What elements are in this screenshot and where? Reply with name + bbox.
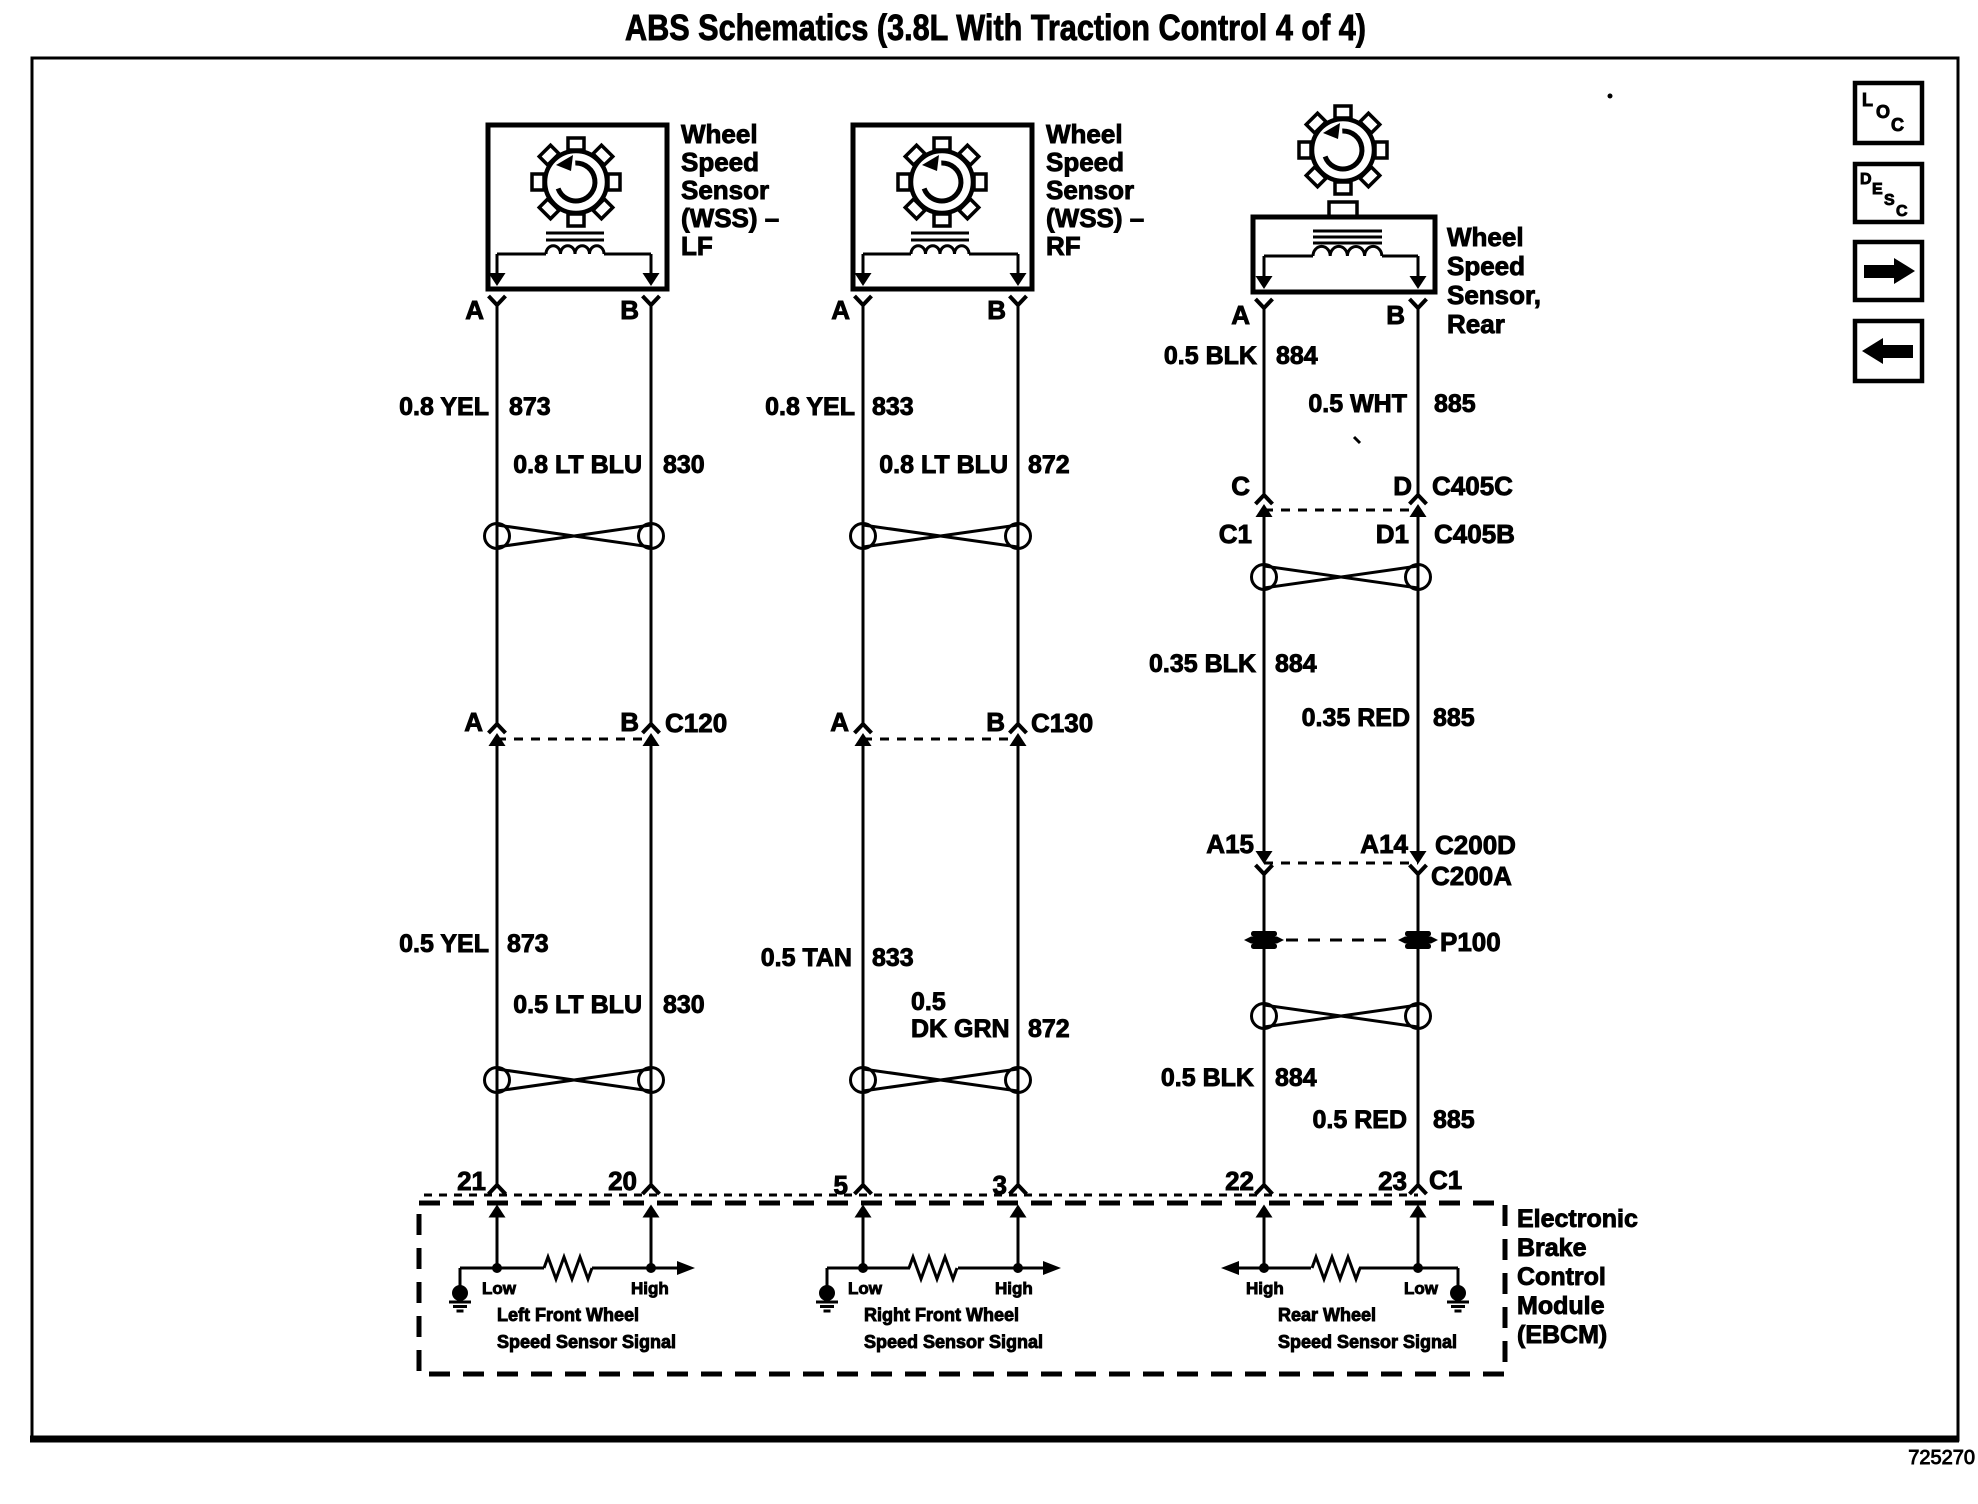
svg-text:S: S bbox=[1884, 192, 1895, 209]
EBCM LF internal wire Low-High bbox=[460, 1261, 695, 1275]
EBCM pin arrow 23 bbox=[1410, 1205, 1427, 1269]
svg-text:Right Front Wheel: Right Front Wheel bbox=[864, 1305, 1019, 1325]
grommet P100 right bbox=[1398, 931, 1438, 949]
rear sensor stub bbox=[1329, 202, 1357, 217]
wire 884 (0.35 BLK) segment rear-A mid bbox=[1263, 517, 1266, 851]
svg-text:884: 884 bbox=[1275, 1064, 1317, 1092]
wheel speed sensor (WSS) RF coil bbox=[911, 233, 969, 254]
svg-text:C1: C1 bbox=[1219, 519, 1252, 549]
twisted pair symbol rear upper bbox=[1252, 565, 1431, 590]
svg-text:Speed: Speed bbox=[1046, 147, 1124, 177]
svg-text:885: 885 bbox=[1434, 390, 1476, 418]
EBCM pin arrow 3 bbox=[1010, 1205, 1027, 1269]
svg-text:O: O bbox=[1876, 102, 1890, 122]
resistor LF wheel speed sensor signal bbox=[544, 1257, 592, 1279]
wire 885 (0.5 WHT) segment rear-B top bbox=[1417, 309, 1420, 494]
WSS LF pin forks bbox=[489, 296, 660, 305]
connector C405C / C405B bbox=[1256, 495, 1427, 517]
label 0.5 BLK 884 top bbox=[1164, 342, 1318, 370]
label 0.5 RED 885 bbox=[1313, 1106, 1475, 1134]
svg-text:A: A bbox=[464, 707, 483, 737]
svg-text:830: 830 bbox=[663, 991, 705, 1019]
svg-text:Wheel: Wheel bbox=[1447, 222, 1524, 252]
svg-text:0.35 BLK: 0.35 BLK bbox=[1149, 650, 1256, 678]
connector C120 bbox=[489, 724, 660, 746]
svg-text:0.5 BLK: 0.5 BLK bbox=[1161, 1064, 1254, 1092]
label 0.8 YEL 873 bbox=[399, 393, 551, 421]
wheel speed sensor (WSS) RF internal wiring bbox=[855, 254, 1027, 286]
label 0.35 BLK 884 bbox=[1149, 650, 1317, 678]
svg-text:Left Front Wheel: Left Front Wheel bbox=[497, 1305, 639, 1325]
label 0.5 LT BLU 830 bbox=[513, 991, 704, 1019]
svg-text:833: 833 bbox=[872, 944, 914, 972]
wire 885 (0.5 RED) segment rear-B bottom bbox=[1417, 949, 1420, 1184]
wheel speed sensor (WSS) LF internal wiring bbox=[489, 254, 660, 286]
wire 833 (0.8 YEL) upper segment RF-A bbox=[862, 306, 865, 723]
wheel speed sensor Rear tone ring gear bbox=[1299, 106, 1387, 194]
svg-text:L: L bbox=[1862, 90, 1873, 110]
DESC button bbox=[1855, 164, 1922, 222]
RF wire end forks at EBCM bbox=[855, 1185, 1027, 1194]
svg-text:A: A bbox=[1231, 300, 1250, 330]
wire 885 (0.35 RED) segment rear-B mid bbox=[1417, 517, 1420, 851]
svg-text:C120: C120 bbox=[665, 708, 727, 738]
svg-text:RF: RF bbox=[1046, 231, 1081, 261]
wheel speed sensor Rear coil bbox=[1313, 231, 1382, 256]
svg-text:0.35 RED: 0.35 RED bbox=[1302, 704, 1410, 732]
svg-text:872: 872 bbox=[1028, 1015, 1070, 1043]
svg-text:Module: Module bbox=[1517, 1292, 1605, 1320]
label 0.8 LT BLU 872 bbox=[879, 451, 1069, 479]
svg-text:C405C: C405C bbox=[1432, 471, 1513, 501]
wire 872 (0.8 LT BLU) upper segment RF-B bbox=[1017, 306, 1020, 723]
label Left Front Wheel Speed Sensor Signal bbox=[497, 1305, 676, 1352]
svg-text:B: B bbox=[620, 295, 639, 325]
wheel speed sensor (WSS) RF box bbox=[853, 125, 1032, 289]
svg-text:C: C bbox=[1231, 471, 1250, 501]
wheel speed sensor RF tone ring gear bbox=[898, 138, 986, 226]
svg-text:0.5 YEL: 0.5 YEL bbox=[399, 930, 489, 958]
svg-text:0.8 LT BLU: 0.8 LT BLU bbox=[513, 451, 642, 479]
svg-text:0.5 BLK: 0.5 BLK bbox=[1164, 342, 1257, 370]
svg-text:A: A bbox=[830, 707, 849, 737]
svg-text:LF: LF bbox=[681, 231, 713, 261]
wire 872 (0.5 DK GRN) lower segment RF-B bbox=[1017, 746, 1020, 1184]
svg-text:B: B bbox=[987, 295, 1006, 325]
label 0.8 LT BLU 830 bbox=[513, 451, 704, 479]
svg-text:885: 885 bbox=[1433, 1106, 1475, 1134]
label Electronic Brake Control Module (EBCM) bbox=[1517, 1205, 1638, 1349]
svg-text:Control: Control bbox=[1517, 1263, 1606, 1291]
wheel speed sensor LF tone ring gear bbox=[532, 138, 620, 226]
LF wire end forks at EBCM bbox=[489, 1185, 660, 1194]
svg-text:833: 833 bbox=[872, 393, 914, 421]
ground at EBCM pin 5 side bbox=[816, 1268, 838, 1311]
wire 833 (0.5 TAN) lower segment RF-A bbox=[862, 746, 865, 1184]
WSS RF pin forks bbox=[855, 296, 1027, 305]
svg-text:C1: C1 bbox=[1429, 1165, 1462, 1195]
P100 dashed link bbox=[1286, 939, 1396, 942]
resistor rear wheel speed sensor signal bbox=[1312, 1257, 1360, 1279]
svg-text:0.5 LT BLU: 0.5 LT BLU bbox=[513, 991, 642, 1019]
svg-text:873: 873 bbox=[507, 930, 549, 958]
svg-text:ABS Schematics (3.8L With Trac: ABS Schematics (3.8L With Traction Contr… bbox=[625, 7, 1366, 48]
EBCM pin arrow 21 bbox=[489, 1205, 506, 1269]
ground at EBCM pin 21 side bbox=[449, 1268, 471, 1311]
label 0.5 DK GRN 872 bbox=[911, 988, 1070, 1043]
svg-text:C200A: C200A bbox=[1431, 861, 1512, 891]
svg-text:0.5 WHT: 0.5 WHT bbox=[1308, 390, 1407, 418]
svg-text:Sensor,: Sensor, bbox=[1447, 280, 1541, 310]
svg-text:Brake: Brake bbox=[1517, 1234, 1587, 1262]
next page arrow button bbox=[1855, 242, 1922, 300]
speck bbox=[1608, 94, 1613, 99]
wheel speed sensor Rear box bbox=[1253, 217, 1435, 292]
LOC button bbox=[1855, 83, 1922, 143]
svg-text:D1: D1 bbox=[1376, 519, 1409, 549]
svg-text:830: 830 bbox=[663, 451, 705, 479]
wire 884 (0.5 BLK) segment rear-A bottom bbox=[1263, 949, 1266, 1184]
svg-text:Speed: Speed bbox=[681, 147, 759, 177]
svg-text:885: 885 bbox=[1433, 704, 1475, 732]
svg-text:B: B bbox=[986, 707, 1005, 737]
svg-text:C: C bbox=[1891, 115, 1904, 135]
svg-text:20: 20 bbox=[608, 1166, 637, 1196]
svg-text:Wheel: Wheel bbox=[1046, 119, 1123, 149]
svg-text:Electronic: Electronic bbox=[1517, 1205, 1638, 1233]
svg-text:B: B bbox=[1386, 300, 1405, 330]
EBCM connector dashed line bbox=[424, 1194, 1418, 1197]
svg-text:725270: 725270 bbox=[1908, 1447, 1975, 1469]
wire 830 (0.8 LT BLU) upper segment LF-B bbox=[650, 306, 653, 723]
svg-text:0.8 YEL: 0.8 YEL bbox=[765, 393, 855, 421]
svg-text:Low: Low bbox=[482, 1279, 517, 1298]
wheel speed sensor (WSS) LF coil bbox=[546, 233, 604, 254]
connector C130 bbox=[855, 724, 1027, 746]
svg-text:873: 873 bbox=[509, 393, 551, 421]
label 0.5 BLK 884 bottom bbox=[1161, 1064, 1317, 1092]
svg-text:0.5: 0.5 bbox=[911, 988, 946, 1016]
label Wheel Speed Sensor, Rear bbox=[1447, 222, 1541, 339]
svg-text:A: A bbox=[831, 295, 850, 325]
wire 830 (0.5 LT BLU) lower segment LF-B bbox=[650, 746, 653, 1184]
svg-text:A15: A15 bbox=[1206, 829, 1254, 859]
svg-text:Rear Wheel: Rear Wheel bbox=[1278, 1305, 1376, 1325]
svg-text:872: 872 bbox=[1028, 451, 1070, 479]
twisted pair symbol RF lower bbox=[851, 1068, 1031, 1093]
wire 873 (0.5 YEL) lower segment LF-A bbox=[496, 746, 499, 1184]
previous page arrow button bbox=[1855, 321, 1922, 381]
twisted pair symbol rear lower bbox=[1252, 1004, 1431, 1029]
svg-text:0.5 TAN: 0.5 TAN bbox=[761, 944, 852, 972]
svg-text:23: 23 bbox=[1378, 1166, 1407, 1196]
svg-text:0.8 YEL: 0.8 YEL bbox=[399, 393, 489, 421]
svg-text:884: 884 bbox=[1276, 342, 1318, 370]
svg-text:0.5 RED: 0.5 RED bbox=[1313, 1106, 1407, 1134]
grommet P100 left bbox=[1244, 931, 1284, 949]
wheel speed sensor Rear internal wiring bbox=[1256, 256, 1427, 289]
twisted pair symbol LF lower bbox=[485, 1068, 664, 1093]
svg-text:C130: C130 bbox=[1031, 708, 1093, 738]
svg-text:D: D bbox=[1393, 471, 1412, 501]
svg-text:A: A bbox=[465, 295, 484, 325]
twisted pair symbol LF upper bbox=[485, 524, 664, 549]
svg-text:Speed: Speed bbox=[1447, 251, 1525, 281]
label 0.5 YEL 873 bbox=[399, 930, 549, 958]
svg-text:C200D: C200D bbox=[1435, 830, 1516, 860]
svg-text:DK GRN: DK GRN bbox=[911, 1015, 1010, 1043]
svg-text:C405B: C405B bbox=[1434, 519, 1515, 549]
svg-text:High: High bbox=[631, 1279, 669, 1298]
svg-text:Sensor: Sensor bbox=[681, 175, 769, 205]
svg-text:Sensor: Sensor bbox=[1046, 175, 1134, 205]
svg-text:(WSS) –: (WSS) – bbox=[1046, 203, 1144, 233]
EBCM module dashed box bbox=[419, 1203, 1505, 1374]
svg-text:D: D bbox=[1860, 171, 1872, 188]
svg-text:0.8 LT BLU: 0.8 LT BLU bbox=[879, 451, 1008, 479]
svg-text:A14: A14 bbox=[1360, 829, 1408, 859]
rear wire end forks at EBCM bbox=[1256, 1185, 1427, 1194]
svg-text:22: 22 bbox=[1225, 1166, 1254, 1196]
svg-text:Low: Low bbox=[848, 1279, 883, 1298]
svg-text:884: 884 bbox=[1275, 650, 1317, 678]
label Rear Wheel Speed Sensor Signal bbox=[1278, 1305, 1457, 1352]
label 0.5 WHT 885 bbox=[1308, 390, 1475, 418]
svg-text:B: B bbox=[620, 707, 639, 737]
wire 884 segment to P100 bbox=[1263, 875, 1266, 931]
svg-text:Wheel: Wheel bbox=[681, 119, 758, 149]
svg-text:E: E bbox=[1872, 181, 1883, 198]
resistor RF wheel speed sensor signal bbox=[909, 1257, 957, 1279]
label Wheel Speed Sensor (WSS) - RF bbox=[1046, 119, 1144, 261]
EBCM RF internal wire Low-High bbox=[827, 1261, 1061, 1275]
svg-text:Speed Sensor Signal: Speed Sensor Signal bbox=[864, 1332, 1043, 1352]
svg-text:P100: P100 bbox=[1440, 927, 1501, 957]
EBCM rear internal wire High-Low bbox=[1221, 1261, 1458, 1275]
wire 873 (0.8 YEL) upper segment LF-A bbox=[496, 306, 499, 723]
label Wheel Speed Sensor (WSS) - LF bbox=[681, 119, 779, 261]
speck bbox=[1354, 437, 1360, 443]
svg-text:Speed Sensor Signal: Speed Sensor Signal bbox=[1278, 1332, 1457, 1352]
svg-text:C: C bbox=[1896, 203, 1908, 220]
svg-text:Rear: Rear bbox=[1447, 309, 1505, 339]
label 0.35 RED 885 bbox=[1302, 704, 1475, 732]
wire 884 (0.5 BLK) segment rear-A top bbox=[1263, 309, 1266, 494]
svg-text:21: 21 bbox=[457, 1166, 486, 1196]
ground at EBCM pin 23 side bbox=[1447, 1268, 1469, 1311]
svg-text:Low: Low bbox=[1404, 1279, 1439, 1298]
twisted pair symbol RF upper bbox=[851, 524, 1031, 549]
svg-text:Speed Sensor Signal: Speed Sensor Signal bbox=[497, 1332, 676, 1352]
wire 885 segment to P100 bbox=[1417, 875, 1420, 931]
label Right Front Wheel Speed Sensor Signal bbox=[864, 1305, 1043, 1352]
wheel speed sensor (WSS) LF box bbox=[488, 125, 667, 289]
label 0.5 TAN 833 bbox=[761, 944, 914, 972]
svg-text:(WSS) –: (WSS) – bbox=[681, 203, 779, 233]
rear sensor pin forks bbox=[1256, 299, 1427, 308]
svg-text:(EBCM): (EBCM) bbox=[1517, 1321, 1607, 1349]
EBCM pin arrow 5 bbox=[855, 1205, 872, 1269]
svg-text:High: High bbox=[995, 1279, 1033, 1298]
connector C200D / C200A bbox=[1256, 851, 1427, 874]
label 0.8 YEL 833 bbox=[765, 393, 914, 421]
svg-text:High: High bbox=[1246, 1279, 1284, 1298]
EBCM pin arrow 20 bbox=[643, 1205, 660, 1269]
EBCM pin arrow 22 bbox=[1256, 1205, 1273, 1269]
